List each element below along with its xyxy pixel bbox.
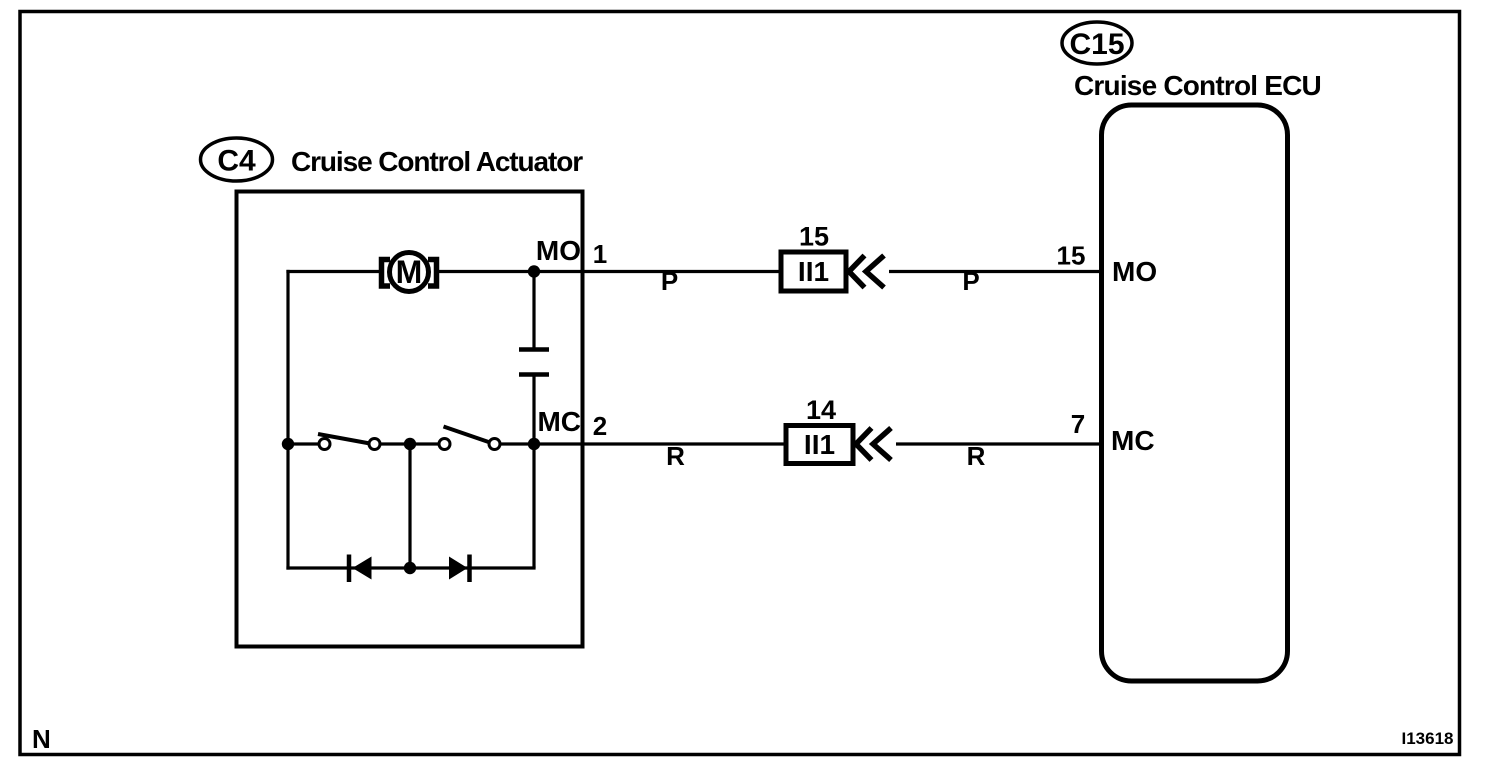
wire MO from chevrons to ECU	[889, 270, 1101, 273]
svg-text:15: 15	[799, 222, 829, 252]
diode D2	[449, 555, 470, 583]
svg-text:MC: MC	[537, 406, 581, 437]
diode D1	[349, 555, 372, 583]
wire MO left segment	[286, 270, 381, 273]
svg-text:R: R	[666, 441, 685, 471]
wire MC from chevrons to ECU	[896, 442, 1101, 445]
node switch middle junction	[404, 438, 416, 450]
svg-text:N: N	[32, 724, 51, 754]
svg-text:R: R	[967, 441, 986, 471]
wire MC to switch 1	[288, 442, 319, 445]
svg-text:2: 2	[593, 411, 607, 441]
svg-text:II1: II1	[798, 256, 829, 287]
wire left branch vertical	[286, 270, 289, 570]
svg-text:II1: II1	[804, 429, 835, 460]
svg-text:Cruise Control Actuator: Cruise Control Actuator	[291, 146, 583, 177]
junction connector II1 pin 14	[786, 426, 853, 464]
wire MC from switch 2 to junction II1	[500, 442, 786, 445]
node diode row junction	[404, 562, 416, 574]
svg-text:7: 7	[1071, 409, 1085, 439]
svg-text:14: 14	[806, 395, 836, 425]
svg-text:I13618: I13618	[1402, 729, 1454, 748]
svg-text:15: 15	[1057, 241, 1086, 271]
chevron arrows row 2	[856, 428, 891, 460]
chevron arrows row 1	[849, 256, 884, 288]
wire diode row	[286, 566, 535, 569]
node MC capacitor junction	[528, 438, 540, 450]
connector label C4	[201, 138, 273, 181]
node MO capacitor junction	[528, 265, 540, 277]
svg-text:MO: MO	[536, 235, 581, 266]
svg-text:P: P	[962, 266, 979, 296]
svg-text:Cruise Control ECU: Cruise Control ECU	[1074, 70, 1321, 101]
svg-text:MO: MO	[1112, 256, 1157, 287]
capacitor	[519, 350, 549, 375]
wire capacitor upper lead	[532, 272, 535, 348]
wire right vertical to diodes	[532, 444, 535, 568]
svg-text:MC: MC	[1111, 425, 1155, 456]
node MC left junction	[282, 438, 294, 450]
switch SW1	[318, 434, 380, 450]
wire between switches	[380, 442, 439, 445]
svg-text:C4: C4	[217, 145, 256, 178]
ECU box C15	[1102, 105, 1288, 681]
svg-text:1: 1	[593, 239, 607, 269]
svg-text:M: M	[396, 254, 423, 290]
connector label C15	[1062, 22, 1132, 64]
motor M	[382, 253, 437, 292]
wire middle vertical to diodes	[408, 444, 411, 568]
svg-text:C15: C15	[1069, 28, 1124, 61]
actuator box C4	[237, 192, 583, 647]
wire capacitor lower lead	[532, 377, 535, 445]
junction connector II1 pin 15	[781, 252, 846, 291]
switch SW2	[439, 427, 500, 450]
wire MO from motor to junction II1	[437, 270, 781, 273]
svg-text:P: P	[661, 266, 678, 296]
